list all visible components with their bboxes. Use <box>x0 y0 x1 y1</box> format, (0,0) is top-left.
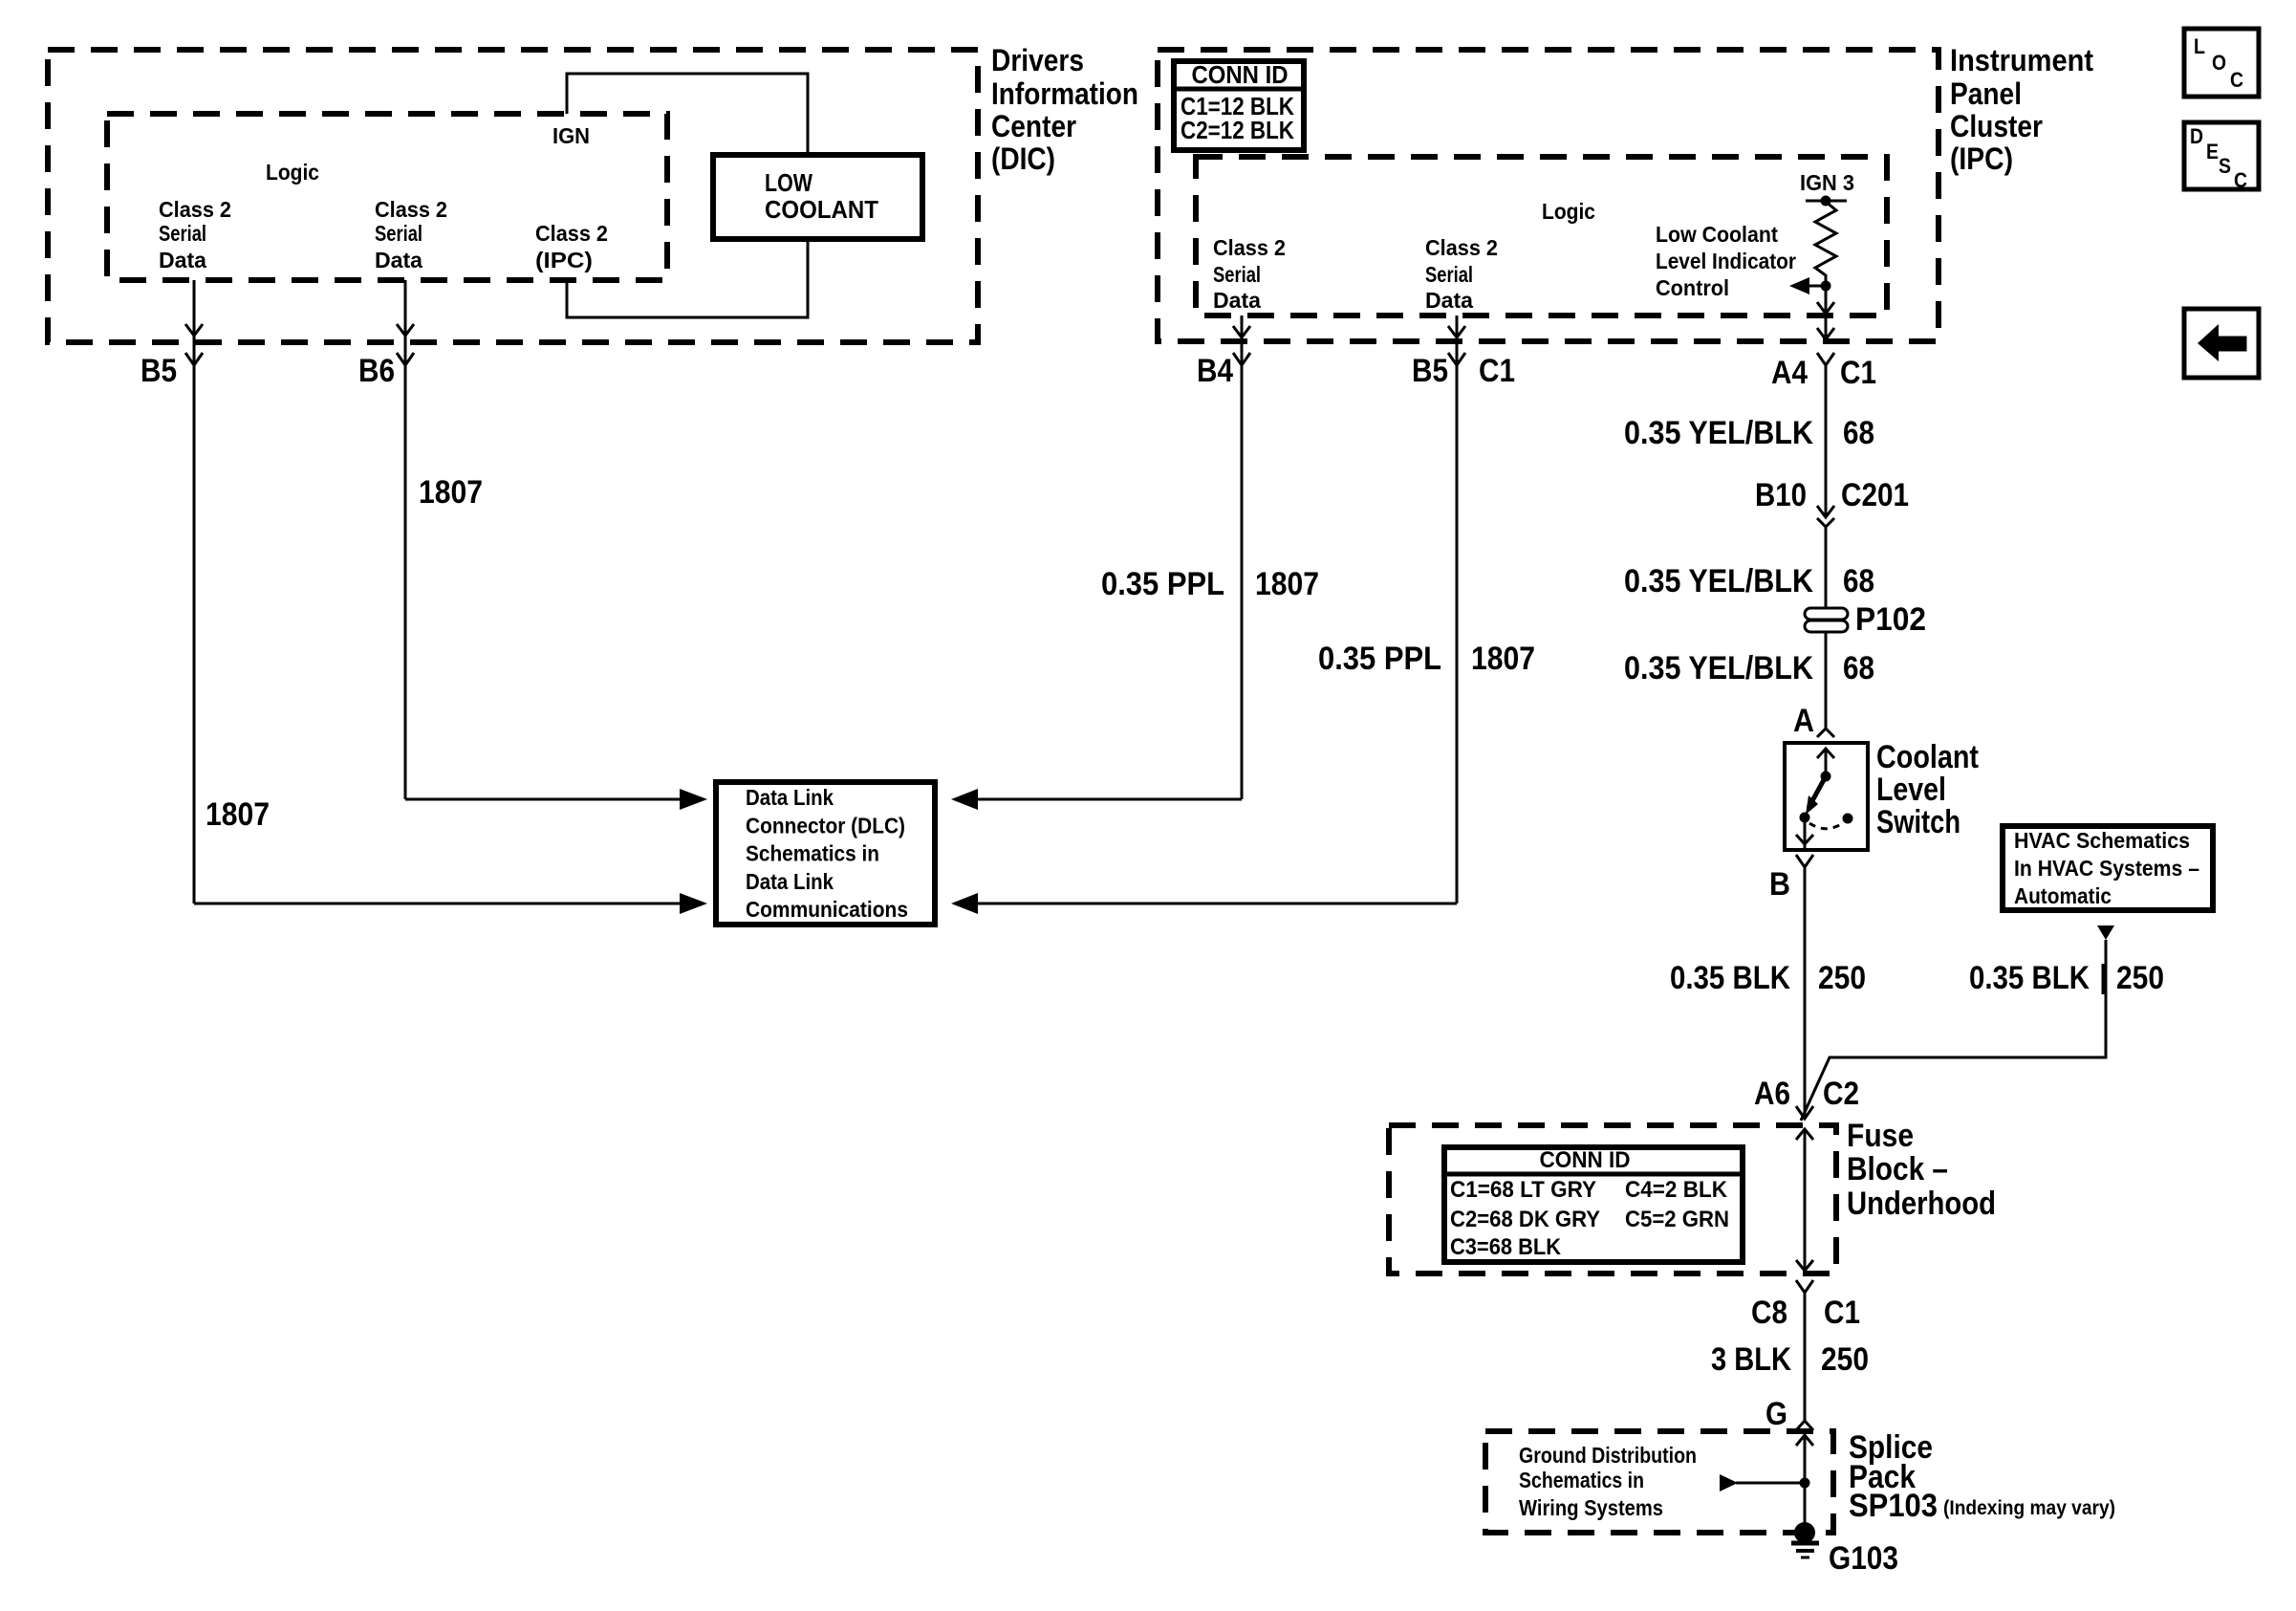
svg-text:3 BLK: 3 BLK <box>1711 1341 1791 1378</box>
svg-text:COOLANT: COOLANT <box>765 195 878 224</box>
svg-text:Serial: Serial <box>1213 262 1261 287</box>
svg-text:B: B <box>1769 866 1790 903</box>
svg-text:Center: Center <box>991 109 1076 143</box>
svg-text:C3=68 BLK: C3=68 BLK <box>1450 1234 1562 1260</box>
svg-text:Data Link: Data Link <box>746 869 834 894</box>
svg-text:Low Coolant: Low Coolant <box>1656 222 1778 247</box>
svg-text:Control: Control <box>1656 275 1729 300</box>
svg-text:HVAC Schematics: HVAC Schematics <box>2014 828 2190 853</box>
svg-text:SP103: SP103 <box>1849 1488 1938 1524</box>
svg-text:Serial: Serial <box>159 221 206 246</box>
svg-text:Serial: Serial <box>375 221 422 246</box>
svg-text:Block –: Block – <box>1847 1151 1948 1187</box>
svg-text:In HVAC Systems –: In HVAC Systems – <box>2014 856 2199 881</box>
svg-text:1807: 1807 <box>1255 566 1319 602</box>
svg-text:1807: 1807 <box>1471 641 1535 677</box>
svg-text:E: E <box>2206 140 2219 163</box>
svg-text:Class 2: Class 2 <box>1213 235 1286 260</box>
svg-text:IGN 3: IGN 3 <box>1800 170 1854 195</box>
svg-text:C2=12 BLK: C2=12 BLK <box>1180 116 1294 144</box>
svg-text:Communications: Communications <box>746 897 908 922</box>
svg-text:B10: B10 <box>1755 477 1807 513</box>
svg-text:C1=68 LT GRY: C1=68 LT GRY <box>1450 1177 1596 1203</box>
svg-text:Automatic: Automatic <box>2014 883 2112 908</box>
svg-text:CONN ID: CONN ID <box>1192 60 1289 89</box>
svg-text:Connector (DLC): Connector (DLC) <box>746 813 905 838</box>
svg-text:B4: B4 <box>1197 353 1233 389</box>
svg-text:L: L <box>2194 34 2205 58</box>
svg-text:Information: Information <box>991 76 1138 111</box>
svg-text:B5: B5 <box>1412 353 1448 389</box>
svg-text:1807: 1807 <box>419 474 483 511</box>
svg-text:Class 2: Class 2 <box>375 197 447 222</box>
svg-text:C1: C1 <box>1824 1295 1860 1331</box>
svg-text:G103: G103 <box>1829 1540 1898 1577</box>
svg-text:C2=68 DK GRY: C2=68 DK GRY <box>1450 1207 1600 1232</box>
svg-text:C: C <box>2230 68 2243 92</box>
svg-text:Data: Data <box>1425 288 1473 313</box>
svg-text:A6: A6 <box>1754 1076 1790 1112</box>
svg-text:0.35 YEL/BLK: 0.35 YEL/BLK <box>1624 650 1813 686</box>
svg-text:Data: Data <box>1213 288 1261 313</box>
svg-text:Serial: Serial <box>1425 262 1473 287</box>
svg-text:Level: Level <box>1876 772 1946 808</box>
svg-text:0.35 YEL/BLK: 0.35 YEL/BLK <box>1624 415 1813 451</box>
svg-text:Class 2: Class 2 <box>535 221 608 246</box>
svg-text:Wiring Systems: Wiring Systems <box>1519 1495 1663 1520</box>
svg-text:C4=2 BLK: C4=2 BLK <box>1625 1177 1728 1203</box>
svg-text:(Indexing may vary): (Indexing may vary) <box>1943 1497 2115 1519</box>
svg-text:Switch: Switch <box>1876 804 1960 840</box>
svg-text:250: 250 <box>2116 960 2164 996</box>
svg-text:B6: B6 <box>358 353 395 389</box>
svg-text:IGN: IGN <box>552 123 590 148</box>
svg-text:D: D <box>2190 124 2203 148</box>
svg-text:Schematics in: Schematics in <box>1519 1468 1644 1492</box>
svg-text:1807: 1807 <box>206 796 270 833</box>
svg-text:Logic: Logic <box>266 160 319 185</box>
svg-text:G: G <box>1765 1396 1787 1432</box>
svg-text:C1: C1 <box>1840 355 1876 391</box>
svg-text:A: A <box>1793 703 1814 739</box>
svg-text:LOW: LOW <box>765 168 812 197</box>
svg-text:C2: C2 <box>1823 1076 1859 1112</box>
svg-text:68: 68 <box>1843 650 1874 686</box>
svg-text:C5=2 GRN: C5=2 GRN <box>1625 1207 1729 1232</box>
svg-text:250: 250 <box>1818 960 1866 996</box>
svg-text:68: 68 <box>1843 415 1874 451</box>
svg-text:S: S <box>2219 154 2231 178</box>
svg-text:Class 2: Class 2 <box>1425 235 1498 260</box>
svg-text:68: 68 <box>1843 563 1874 599</box>
svg-text:0.35 YEL/BLK: 0.35 YEL/BLK <box>1624 563 1813 599</box>
svg-text:(IPC): (IPC) <box>1950 142 2013 176</box>
svg-text:0.35 PPL: 0.35 PPL <box>1318 641 1441 677</box>
svg-text:Coolant: Coolant <box>1876 739 1979 775</box>
svg-text:0.35 PPL: 0.35 PPL <box>1101 566 1224 602</box>
svg-text:Cluster: Cluster <box>1950 109 2043 143</box>
svg-text:(IPC): (IPC) <box>535 248 593 272</box>
svg-text:Logic: Logic <box>1542 199 1595 224</box>
svg-text:A4: A4 <box>1771 355 1808 391</box>
svg-text:Level Indicator: Level Indicator <box>1656 249 1796 273</box>
svg-text:C: C <box>2234 168 2247 192</box>
svg-text:C1: C1 <box>1479 353 1515 389</box>
svg-text:Schematics in: Schematics in <box>746 841 879 866</box>
svg-text:Fuse: Fuse <box>1847 1118 1914 1154</box>
svg-text:250: 250 <box>1821 1341 1869 1378</box>
svg-text:CONN ID: CONN ID <box>1540 1147 1631 1173</box>
svg-text:Data: Data <box>375 248 422 272</box>
svg-text:O: O <box>2212 51 2226 75</box>
svg-text:(DIC): (DIC) <box>991 142 1055 176</box>
svg-text:Ground Distribution: Ground Distribution <box>1519 1443 1697 1468</box>
svg-text:Data: Data <box>159 248 206 272</box>
svg-text:Drivers: Drivers <box>991 43 1084 77</box>
svg-text:C8: C8 <box>1751 1295 1787 1331</box>
svg-text:Class 2: Class 2 <box>159 197 231 222</box>
svg-text:C201: C201 <box>1841 477 1909 513</box>
svg-text:Instrument: Instrument <box>1950 43 2093 77</box>
svg-text:Data Link: Data Link <box>746 785 834 810</box>
svg-text:B5: B5 <box>141 353 177 389</box>
svg-text:0.35 BLK: 0.35 BLK <box>1969 960 2090 996</box>
svg-text:Underhood: Underhood <box>1847 1186 1996 1222</box>
svg-text:P102: P102 <box>1855 601 1926 638</box>
svg-text:Panel: Panel <box>1950 76 2022 111</box>
svg-text:0.35 BLK: 0.35 BLK <box>1670 960 1790 996</box>
